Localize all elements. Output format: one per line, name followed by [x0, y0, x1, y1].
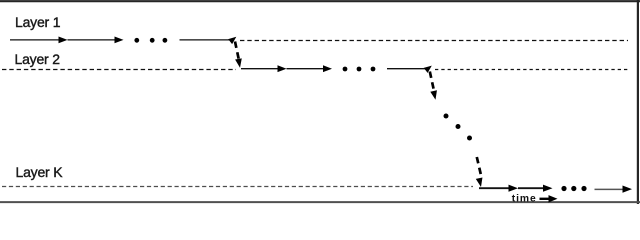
svg-text:Layer K: Layer K: [16, 164, 64, 180]
svg-text:Layer 2: Layer 2: [15, 51, 61, 67]
svg-text:time: time: [512, 193, 537, 204]
svg-text:Layer 1: Layer 1: [15, 14, 61, 30]
